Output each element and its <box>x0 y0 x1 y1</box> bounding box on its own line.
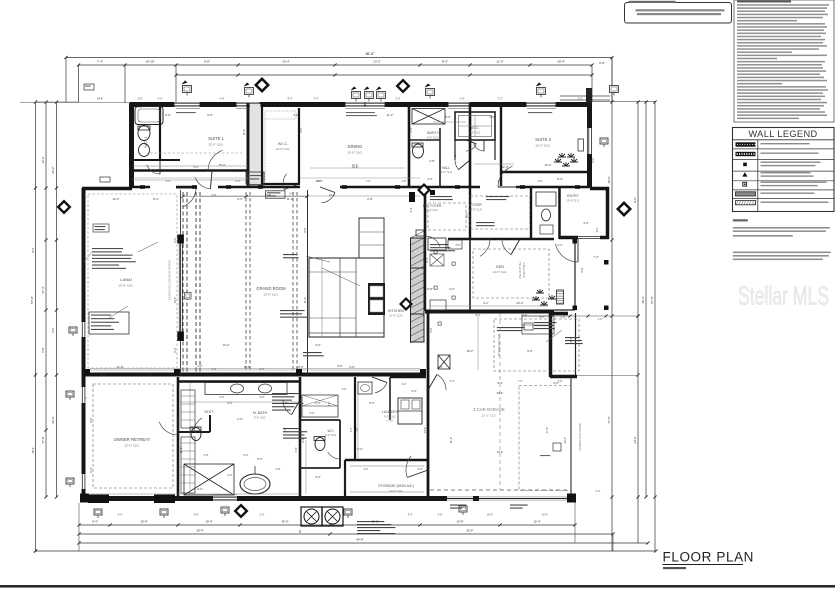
svg-text:5'-0": 5'-0" <box>194 166 199 169</box>
door suite1 entry <box>183 188 196 207</box>
svg-text:LINE OF 8" TALL: LINE OF 8" TALL <box>519 260 522 279</box>
door suite1 <box>208 150 223 171</box>
svg-text:7'-2": 7'-2" <box>593 255 599 259</box>
entry porch right wall <box>574 237 576 310</box>
svg-text:3'-0": 3'-0" <box>228 474 233 477</box>
dim riser bottom <box>78 503 80 551</box>
svg-text:FOYER: FOYER <box>470 203 482 207</box>
svg-text:7'-6": 7'-6" <box>282 401 288 405</box>
svg-text:14'-2": 14'-2" <box>222 343 229 347</box>
svg-text:11'-4": 11'-4" <box>303 297 307 303</box>
svg-text:2'-8": 2'-8" <box>558 380 563 383</box>
svg-text:8'-6": 8'-6" <box>303 227 307 232</box>
bar area boxes <box>428 238 446 250</box>
wall legend box <box>733 128 835 212</box>
svg-text:6'-8": 6'-8" <box>165 113 171 117</box>
dim line bottom 4 <box>36 550 657 552</box>
wall bath2 inner <box>409 139 440 141</box>
note suite2 wdw <box>497 327 525 328</box>
svg-text:2'-8": 2'-8" <box>276 468 281 471</box>
svg-text:7'-0": 7'-0" <box>355 427 359 432</box>
lin closet box <box>248 172 264 185</box>
svg-text:5'-8": 5'-8" <box>427 287 433 291</box>
svg-text:9'-0": 9'-0" <box>207 113 213 117</box>
laundry garage wall <box>390 375 426 379</box>
svg-text:9'-2": 9'-2" <box>197 487 203 491</box>
svg-text:10'-8": 10'-8" <box>140 520 147 524</box>
svg-text:2'-8": 2'-8" <box>367 197 373 201</box>
door vest <box>194 418 202 432</box>
wall suite2 left <box>500 103 502 186</box>
svg-text:13'-0" CLG.: 13'-0" CLG. <box>263 293 279 297</box>
legend swatch row3 <box>743 163 747 167</box>
kitchen inner lines <box>309 271 356 273</box>
svg-text:9'-0": 9'-0" <box>173 237 177 242</box>
lanai top wall <box>82 187 132 191</box>
svg-text:18'-2": 18'-2" <box>466 349 473 353</box>
svg-text:7'-4": 7'-4" <box>97 60 103 64</box>
note plumbing garage <box>272 393 300 394</box>
wall wic bottom <box>262 183 299 185</box>
corner tag topleft <box>84 84 94 90</box>
svg-text:8'-0": 8'-0" <box>442 60 448 64</box>
dim line top third <box>176 74 592 76</box>
wc suite2 room <box>455 112 495 140</box>
laundry sink <box>358 382 372 394</box>
dim riser right top <box>611 58 613 103</box>
legend swatch row6 <box>736 192 756 196</box>
svg-text:17'-4": 17'-4" <box>545 427 549 434</box>
hall band openings <box>150 184 176 190</box>
kitchen counter inner <box>339 258 341 337</box>
svg-text:6'-4": 6'-4" <box>498 180 503 183</box>
wall laundry storage <box>345 459 428 461</box>
dim riser left top <box>65 58 67 103</box>
hers closet <box>522 316 554 334</box>
svg-text:16'-0": 16'-0" <box>542 514 548 517</box>
dim ext left <box>20 102 130 104</box>
note kitchen top <box>283 254 297 255</box>
svg-text:5'-4": 5'-4" <box>450 380 455 383</box>
svg-text:5'-0": 5'-0" <box>445 115 451 119</box>
svg-text:20'-4": 20'-4" <box>497 391 504 395</box>
leader kitchen <box>322 268 360 286</box>
svg-text:12'-0" CLG.: 12'-0" CLG. <box>347 151 363 155</box>
svg-text:3'-8": 3'-8" <box>460 98 465 101</box>
svg-text:2'-0": 2'-0" <box>101 373 107 377</box>
svg-text:57'-8": 57'-8" <box>30 296 34 304</box>
storage shelves <box>350 465 424 467</box>
note block 2 text <box>733 252 831 254</box>
svg-text:2'-8": 2'-8" <box>438 514 443 517</box>
dim line right v3 <box>645 102 647 497</box>
lanai screen inset <box>88 194 177 368</box>
exterior wall top <box>130 102 592 107</box>
wall suite1 right <box>247 103 250 188</box>
wall wc2 box <box>300 419 340 421</box>
notes box 1 border <box>625 3 732 24</box>
svg-text:12'-0" CLG.: 12'-0" CLG. <box>389 314 403 318</box>
note left small1 <box>93 224 109 232</box>
svg-text:2'-0": 2'-0" <box>237 417 243 421</box>
wall den top <box>448 238 554 240</box>
wc suite2 closet doors <box>454 140 456 160</box>
marker diamond mbath <box>216 510 218 512</box>
svg-text:3'-4": 3'-4" <box>118 514 123 517</box>
svg-text:5'-0": 5'-0" <box>540 316 545 319</box>
wall legend descriptions <box>761 143 810 144</box>
svg-text:PLANT SHELF: PLANT SHELF <box>523 261 526 278</box>
svg-text:8'-4": 8'-4" <box>425 257 429 262</box>
svg-text:12'-0" CLG.: 12'-0" CLG. <box>493 270 508 274</box>
wall garage left <box>427 313 430 497</box>
hall texts mid <box>430 196 452 197</box>
dim line right v1 <box>611 58 613 552</box>
svg-text:19'-6": 19'-6" <box>497 450 504 454</box>
marker diamond top1 <box>254 77 270 93</box>
note lanai 1 <box>92 248 123 249</box>
vanity sink 1 <box>231 384 244 393</box>
note owner left <box>85 397 87 399</box>
entry porch bottom <box>554 309 575 311</box>
svg-text:5'-4": 5'-4" <box>92 520 98 524</box>
svg-text:9'-6": 9'-6" <box>290 193 295 196</box>
svg-text:6'-0": 6'-0" <box>158 98 163 101</box>
svg-text:4'-8": 4'-8" <box>220 98 225 101</box>
svg-text:1'-6": 1'-6" <box>598 318 603 321</box>
window bottom wall <box>213 496 237 501</box>
marker diamond entry <box>616 201 632 217</box>
svg-text:2'-0": 2'-0" <box>402 383 407 386</box>
notes column text <box>737 4 829 6</box>
svg-text:6'-8": 6'-8" <box>41 347 45 352</box>
svg-text:13'-4" CLG.: 13'-4" CLG. <box>566 199 580 203</box>
note den wdw <box>303 352 322 353</box>
note water heater <box>283 428 298 429</box>
owner retreat tray <box>93 384 173 488</box>
svg-text:24'-0": 24'-0" <box>516 301 523 305</box>
svg-text:12'-0": 12'-0" <box>501 165 508 169</box>
dim line left v1 <box>35 102 37 551</box>
porch column 2 <box>154 495 175 504</box>
window top wall 4 <box>526 102 556 107</box>
window right wall <box>588 128 593 154</box>
pantry hatched strip <box>411 238 425 342</box>
bath1 sink <box>139 144 150 157</box>
svg-text:1'-6": 1'-6" <box>342 388 347 391</box>
svg-text:6'-4": 6'-4" <box>89 467 93 472</box>
svg-text:24'-6": 24'-6" <box>633 436 637 443</box>
entry bottom wall <box>559 236 578 240</box>
svg-text:12'-6": 12'-6" <box>41 156 45 163</box>
svg-text:86'-8": 86'-8" <box>366 52 375 56</box>
porch column 1 <box>88 495 109 504</box>
wall storage left <box>344 460 346 497</box>
hall closet linen <box>246 172 264 184</box>
svg-text:10'-2": 10'-2" <box>521 314 527 317</box>
garage door labels <box>450 505 467 506</box>
svg-text:11'-6": 11'-6" <box>243 129 246 135</box>
svg-text:9'-0" CLG.: 9'-0" CLG. <box>427 136 440 140</box>
svg-text:7'-2": 7'-2" <box>498 98 503 101</box>
suite2 plants <box>554 158 562 162</box>
kitchen upper cabinets <box>359 218 384 258</box>
svg-text:LANAI: LANAI <box>120 277 132 282</box>
page border bottom <box>0 585 835 588</box>
den bottom wall <box>425 310 554 314</box>
wall suite1 bottom <box>133 169 248 172</box>
exterior wall left <box>82 188 86 497</box>
note block 1 title <box>733 219 748 221</box>
svg-text:15'-4": 15'-4" <box>282 60 290 64</box>
mbath vanity wall <box>178 380 300 383</box>
svg-text:4'-0": 4'-0" <box>583 221 589 225</box>
svg-text:11'-0": 11'-0" <box>449 437 453 443</box>
window left wall 2 <box>81 387 86 403</box>
svg-text:9'-8": 9'-8" <box>204 60 210 64</box>
svg-text:6'-0": 6'-0" <box>315 343 321 347</box>
door storage <box>344 470 346 490</box>
wic shelves dash <box>265 111 296 119</box>
svg-text:26'-0": 26'-0" <box>51 416 55 423</box>
svg-text:12'-4": 12'-4" <box>533 520 540 524</box>
svg-text:3'-2": 3'-2" <box>449 287 455 291</box>
svg-text:5'-6": 5'-6" <box>227 401 233 405</box>
window tag row top <box>183 86 192 93</box>
svg-text:29'-4": 29'-4" <box>196 529 203 533</box>
garage small box <box>553 443 561 451</box>
hall long lines <box>300 177 420 179</box>
exterior wall bottom <box>82 496 575 501</box>
svg-text:3'-6": 3'-6" <box>315 475 321 479</box>
svg-text:8'-6": 8'-6" <box>476 314 481 317</box>
svg-text:9'-0": 9'-0" <box>527 349 533 353</box>
note garage col <box>280 310 305 311</box>
svg-text:4'-0": 4'-0" <box>300 127 303 132</box>
svg-text:9'-0" CLG.: 9'-0" CLG. <box>384 415 396 419</box>
svg-text:+ CLG.: + CLG. <box>386 420 394 423</box>
svg-text:5'-6": 5'-6" <box>310 412 315 415</box>
mid wall y375 <box>82 373 426 377</box>
under wall texts <box>346 112 375 113</box>
wall hall kitchen <box>424 240 426 311</box>
svg-text:9'-8": 9'-8" <box>295 447 298 452</box>
grandroom columns mid1 <box>245 192 247 372</box>
svg-text:12'-4": 12'-4" <box>352 164 358 167</box>
entry porch posts <box>573 239 578 244</box>
svg-text:4'-4": 4'-4" <box>409 207 413 212</box>
floor plan scale <box>663 567 686 569</box>
hdr note box <box>266 191 286 198</box>
bath2 shower <box>412 109 445 125</box>
svg-text:W.C.: W.C. <box>328 429 335 433</box>
svg-text:5'-0": 5'-0" <box>396 98 401 101</box>
lanai tag <box>185 293 192 300</box>
svg-text:HALL: HALL <box>442 166 450 170</box>
wall bath2 right <box>469 103 472 188</box>
dim ext right mid <box>552 315 638 317</box>
svg-text:9'-0" CLG.: 9'-0" CLG. <box>325 434 337 437</box>
wall laundry left <box>354 377 356 460</box>
note lanai 2 box <box>89 312 129 334</box>
lanai grand boundary <box>180 190 182 374</box>
svg-text:11'-2": 11'-2" <box>387 113 394 117</box>
svg-text:15'-4": 15'-4" <box>218 163 225 167</box>
mbath closet shelves <box>181 437 195 493</box>
garage center lines <box>499 313 501 490</box>
wall hall top band <box>132 186 592 189</box>
mid band extra marks <box>434 250 437 253</box>
hall band posts <box>140 185 145 189</box>
svg-text:4'-4": 4'-4" <box>166 180 171 183</box>
svg-text:5'-8": 5'-8" <box>470 137 473 142</box>
garage future bay <box>519 386 571 491</box>
note ac pad <box>357 521 384 522</box>
svg-text:16'-0": 16'-0" <box>281 520 288 524</box>
svg-text:WALL LEGEND: WALL LEGEND <box>748 129 817 139</box>
svg-text:2'-0": 2'-0" <box>138 98 143 101</box>
legend swatch row7 <box>736 201 756 205</box>
svg-text:4'-6": 4'-6" <box>284 427 287 432</box>
svg-text:8'-4": 8'-4" <box>153 197 159 201</box>
door den2 <box>502 239 511 255</box>
svg-text:5'-0": 5'-0" <box>369 401 375 405</box>
vanity sink 2 <box>259 384 272 393</box>
svg-text:6'-6": 6'-6" <box>418 468 423 471</box>
door bath2 <box>455 155 458 170</box>
wall wic right <box>298 108 300 185</box>
svg-text:11'-6": 11'-6" <box>496 60 503 64</box>
svg-text:5'-8": 5'-8" <box>194 514 199 517</box>
svg-text:2'-6": 2'-6" <box>260 514 265 517</box>
door bath1 <box>147 165 160 174</box>
svg-text:KITCHEN: KITCHEN <box>388 309 404 313</box>
svg-text:12'-0" CLG.: 12'-0" CLG. <box>439 170 453 174</box>
svg-text:6'-2": 6'-2" <box>173 347 177 352</box>
svg-text:BATH 1: BATH 1 <box>144 136 148 147</box>
svg-text:8'-2": 8'-2" <box>569 337 573 342</box>
court dashed <box>494 319 579 371</box>
svg-text:13'-0" CLG.: 13'-0" CLG. <box>118 284 134 288</box>
svg-text:13'-2": 13'-2" <box>373 60 381 64</box>
wall mbath right <box>299 377 302 497</box>
window top wall 2 <box>236 102 260 107</box>
svg-text:2'-2": 2'-2" <box>236 180 241 183</box>
svg-text:16'-0": 16'-0" <box>487 514 493 517</box>
den plants2 <box>532 296 540 300</box>
bath tag left <box>100 177 110 182</box>
svg-text:4'-0": 4'-0" <box>429 327 433 332</box>
svg-text:64'-8": 64'-8" <box>356 538 363 542</box>
svg-text:27'-4": 27'-4" <box>41 286 45 293</box>
ac units <box>301 507 322 526</box>
dim line top second <box>79 64 593 66</box>
dim line bottom 3 <box>79 542 648 544</box>
svg-text:8'-0": 8'-0" <box>89 417 93 422</box>
svg-text:4'-2": 4'-2" <box>483 301 489 305</box>
wall legend title line <box>733 139 835 141</box>
wall legend divider <box>757 140 759 212</box>
svg-text:16'-4": 16'-4" <box>31 447 35 454</box>
kitchen appliances <box>368 283 385 315</box>
window tag right <box>600 138 608 144</box>
svg-text:GRAND ROOM: GRAND ROOM <box>256 286 286 291</box>
svg-text:EXT. FOYER: EXT. FOYER <box>423 204 442 208</box>
dim line left v2 <box>45 102 47 497</box>
svg-text:2'-4": 2'-4" <box>314 98 319 101</box>
court right wall <box>549 311 553 377</box>
window tag bottom2 <box>344 509 352 515</box>
svg-text:6'-0": 6'-0" <box>260 396 265 399</box>
interior leader lines <box>133 165 248 167</box>
svg-text:13'-4" CLG.: 13'-4" CLG. <box>426 209 439 212</box>
window tag left wall <box>69 327 77 333</box>
door kitchen hall <box>425 236 440 247</box>
svg-text:3'-8": 3'-8" <box>204 454 209 457</box>
svg-text:2'-2": 2'-2" <box>220 396 225 399</box>
legend swatch row4 <box>742 172 747 176</box>
svg-text:DINING: DINING <box>348 144 363 149</box>
svg-text:7'-0": 7'-0" <box>518 380 523 383</box>
wall foyer den <box>469 188 471 240</box>
grand dim line <box>183 196 307 198</box>
door garage house <box>437 374 446 390</box>
marker diamond top2 <box>396 79 411 94</box>
wall laundry right piece <box>389 377 391 420</box>
svg-text:57'-8": 57'-8" <box>650 296 654 304</box>
svg-text:12'-0" CLG.: 12'-0" CLG. <box>481 414 497 418</box>
svg-text:14'-0": 14'-0" <box>173 297 177 304</box>
marker diamond junction <box>417 183 431 197</box>
svg-text:3'-0": 3'-0" <box>427 177 433 181</box>
leader den <box>546 330 562 342</box>
hall arcs upper <box>321 193 335 203</box>
svg-text:14'-8": 14'-8" <box>97 98 103 101</box>
window tag garage <box>299 529 301 531</box>
wall owner right <box>177 377 180 497</box>
wall vest <box>178 431 210 433</box>
suite2 dresser <box>578 139 584 151</box>
svg-text:12'-0": 12'-0" <box>112 197 119 201</box>
svg-text:3'-6": 3'-6" <box>538 180 543 183</box>
legend swatch row1 <box>736 142 756 146</box>
storage door arcs <box>635 0 637 1</box>
wall legend row lines <box>733 148 835 150</box>
dim line bottom 1 <box>79 524 575 526</box>
svg-text:W.I.C.: W.I.C. <box>471 126 480 130</box>
den tray <box>473 249 549 298</box>
patio top wall <box>550 312 568 316</box>
svg-text:12'-0" CLG.: 12'-0" CLG. <box>535 144 551 148</box>
wall foyer right <box>530 188 532 239</box>
svg-text:8'-8": 8'-8" <box>338 365 343 368</box>
dining ceiling line <box>310 167 405 169</box>
svg-text:SCREEN ENCLOSURE BY OTHERS: SCREEN ENCLOSURE BY OTHERS <box>169 260 172 300</box>
svg-text:12'-0" CLG.: 12'-0" CLG. <box>276 147 291 151</box>
svg-text:STORAGE (NON A/C): STORAGE (NON A/C) <box>378 484 414 488</box>
garage door header <box>430 489 570 491</box>
suite1 tray dashes <box>150 152 242 154</box>
svg-text:9'-0" CLG.: 9'-0" CLG. <box>469 132 481 135</box>
svg-text:8'-8": 8'-8" <box>301 437 305 442</box>
svg-text:12'-0" CLG.: 12'-0" CLG. <box>208 143 224 147</box>
foyer texts <box>430 244 448 245</box>
svg-text:8'-0": 8'-0" <box>288 98 293 101</box>
wall foyer left <box>424 188 427 240</box>
svg-text:2'-4": 2'-4" <box>596 490 601 493</box>
dim line bottom 2 <box>79 533 613 535</box>
plumbing wall fill <box>250 104 261 184</box>
